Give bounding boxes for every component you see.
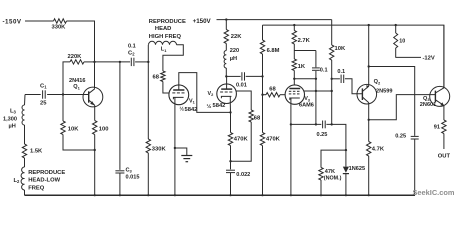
wire Q3 collector up: [443, 25, 445, 88]
resistor R 1.5K: [22, 144, 43, 158]
wire Q3 emitter down: [443, 105, 445, 120]
wire 68 leads: [263, 94, 286, 96]
node junction Q2 collector rail tap: [368, 24, 370, 26]
node junction cathode/ground: [174, 147, 176, 149]
node junction Q2 emitter/Q3 base: [368, 119, 370, 121]
svg-text:0.022: 0.022: [236, 172, 250, 178]
wire Q2 0.1 branch: [332, 78, 340, 80]
wire L2 to ground rail corner: [24, 190, 26, 195]
node junction 2.7K tap: [293, 24, 295, 26]
wire to V3 grid branch: [262, 76, 264, 94]
svg-text:22K: 22K: [231, 34, 242, 40]
svg-text:68: 68: [254, 116, 261, 122]
capacitor C3 0.015: [115, 168, 139, 181]
svg-text:25: 25: [40, 101, 47, 107]
node +150V supply terminal: [193, 18, 212, 25]
svg-text:0.25: 0.25: [317, 132, 328, 138]
svg-text:1.5K: 1.5K: [30, 149, 43, 155]
node ground rail junction: [119, 194, 121, 196]
wire 0.1 bottom to plate line: [315, 71, 317, 79]
node junction V3 plate: [293, 78, 295, 80]
resistor R 470K (V3 grid): [260, 133, 280, 146]
wire ground rail: [25, 194, 416, 196]
svg-text:91: 91: [434, 125, 440, 131]
tube V3 6AM6: [285, 85, 314, 108]
wire 330K to corner: [67, 21, 95, 62]
svg-text:2N599: 2N599: [376, 89, 392, 95]
node junction screen drop/cathode line: [331, 123, 333, 125]
svg-text:C1: C1: [40, 84, 47, 90]
svg-text:68: 68: [153, 74, 160, 80]
node junction 10ohm rail tap: [395, 24, 397, 26]
wire cathode to ground symbol: [175, 148, 187, 156]
node ground rail junction: [368, 194, 370, 196]
svg-text:½: ½: [207, 103, 212, 110]
wire base line left: [25, 94, 41, 96]
svg-text:½: ½: [179, 105, 184, 112]
wire 220uH to plate node: [225, 68, 227, 76]
svg-text:100: 100: [99, 126, 109, 132]
resistor R 6.8M: [260, 40, 279, 54]
node ground rail junction: [174, 194, 176, 196]
resistor R 470K (cathode): [228, 133, 248, 146]
svg-text:V1: V1: [189, 99, 196, 105]
wire C1 to Q1 base: [47, 94, 89, 96]
wire V1 plate lead: [179, 73, 231, 113]
node ground rail junction: [345, 194, 347, 196]
node ground rail junction: [320, 194, 322, 196]
wire 4.7K top: [368, 120, 370, 142]
wire emitter line: [369, 67, 415, 136]
svg-text:L1: L1: [161, 47, 167, 53]
node junction coupling: [261, 75, 263, 77]
wire +150V rail: [217, 19, 332, 21]
svg-text:HIGH FREQ: HIGH FREQ: [149, 34, 182, 40]
wire 0.022 to ground rail: [230, 173, 232, 196]
svg-text:5842: 5842: [213, 103, 226, 109]
wire -12V stub: [395, 56, 421, 58]
svg-text:C2: C2: [128, 50, 135, 56]
svg-text:Q1: Q1: [73, 84, 80, 90]
wire V3 screen line: [304, 90, 332, 92]
svg-text:C3: C3: [126, 168, 133, 174]
svg-text:-150V: -150V: [3, 19, 22, 26]
svg-text:OUT: OUT: [438, 153, 451, 159]
resistor R 10: [394, 33, 406, 48]
wire 91 to OUT: [443, 134, 445, 150]
capacitor 0.25 (cathode): [317, 121, 328, 139]
svg-text:47K: 47K: [325, 169, 335, 175]
svg-text:470K: 470K: [266, 137, 281, 143]
svg-text:10: 10: [399, 38, 405, 44]
wire bias branch left: [321, 150, 346, 167]
svg-text:10K: 10K: [335, 46, 346, 52]
tube V2 half 5842: [207, 84, 237, 110]
node ground rail junction: [94, 194, 96, 196]
node watermark: [413, 188, 455, 197]
svg-text:Q2: Q2: [374, 79, 381, 85]
svg-text:HEAD: HEAD: [155, 26, 171, 32]
wire L3 to 1.5K: [24, 125, 26, 144]
wire diode top lead: [345, 150, 347, 167]
wire 10K top: [62, 95, 64, 122]
svg-text:10K: 10K: [68, 127, 79, 133]
resistor R 330K (grid leak): [146, 139, 166, 153]
wire node A to C2: [95, 61, 131, 63]
node -150V supply terminal: [3, 19, 22, 26]
capacitor C2 0.1: [128, 43, 136, 66]
svg-text:68: 68: [269, 86, 276, 92]
capacitor 0.1 (Q2 base): [337, 69, 345, 83]
wire 220K right to junction: [84, 61, 95, 63]
wire 68 down to bias node: [231, 122, 252, 161]
resistor R 47K NOM: [319, 168, 342, 182]
resistor R 330K (top): [52, 19, 67, 31]
wire 2.7K top lead: [293, 25, 295, 30]
node junction emitter resistors: [94, 149, 96, 151]
svg-text:-12V: -12V: [423, 56, 435, 62]
svg-text:HEAD-LOW: HEAD-LOW: [28, 178, 60, 184]
transistor Q3 2N601: [420, 86, 450, 108]
wire 22K to 220uH: [225, 44, 227, 51]
node junction 22K tap: [225, 18, 227, 20]
svg-text:0.1: 0.1: [337, 69, 345, 75]
node junction bypass/cathode: [315, 123, 317, 125]
wire plate node to 0.01: [226, 75, 240, 77]
node OUT terminal: [438, 153, 451, 159]
wire Q2 emitter down: [368, 103, 370, 120]
svg-text:0.1: 0.1: [128, 43, 136, 49]
resistor R 22K: [224, 30, 242, 44]
node ground rail junction: [229, 194, 231, 196]
wire V2 cathode to junction: [229, 103, 231, 112]
wire 6.8M top lead: [262, 25, 264, 40]
svg-text:220: 220: [230, 48, 239, 54]
node -12V supply terminal: [423, 56, 435, 62]
svg-text:5842: 5842: [185, 107, 198, 113]
wire cathode line right: [326, 124, 346, 150]
transistor Q1 2N416: [69, 78, 103, 107]
ground symbol: [181, 156, 192, 162]
wire base corner down to L3: [24, 95, 27, 106]
node junction 0.1/plate line: [315, 78, 317, 80]
node junction V3 cathode: [290, 123, 292, 125]
wire 1.5K to L2: [24, 158, 26, 167]
svg-text:µH: µH: [230, 56, 237, 62]
svg-text:+150V: +150V: [193, 18, 212, 25]
resistor R 91: [434, 120, 446, 134]
wire 68 to V1 grid: [163, 82, 169, 94]
node junction L1/330K: [147, 61, 149, 63]
wire 1K top: [293, 51, 295, 60]
svg-text:0.25: 0.25: [395, 133, 406, 139]
wire plate node line: [294, 78, 316, 80]
node junction screen line: [315, 90, 317, 92]
resistor R 10K (Q1): [61, 121, 79, 135]
node junction V2 cathode: [229, 111, 231, 113]
svg-text:330K: 330K: [52, 24, 67, 30]
svg-text:220K: 220K: [68, 54, 83, 60]
resistor R 10K (screen): [330, 45, 346, 60]
node junction V2 plate: [225, 75, 227, 77]
svg-text:L3: L3: [10, 109, 17, 115]
wire 10ohm top: [395, 25, 397, 33]
wire 0.01 to 6.8M line: [246, 75, 263, 77]
svg-text:4.7K: 4.7K: [372, 146, 385, 152]
node ground rail junction: [290, 194, 292, 196]
node junction emitter line: [368, 65, 370, 67]
svg-text:(NOM.): (NOM.): [324, 176, 342, 182]
inductor L2 reproduce head low freq: [14, 167, 66, 191]
wire junction down to ground rail: [94, 150, 96, 195]
node ground rail junction: [261, 194, 263, 196]
svg-text:REPRODUCE: REPRODUCE: [149, 19, 186, 25]
capacitor 0.1 (plate): [312, 68, 328, 74]
capacitor 0.022: [226, 170, 250, 178]
wire V3 plate lead: [293, 79, 295, 85]
resistor R 68 (V3 grid stopper): [266, 86, 280, 97]
svg-text:0.1: 0.1: [320, 68, 328, 74]
svg-text:0.01: 0.01: [236, 83, 247, 89]
resistor R 68 (V1 grid): [153, 71, 166, 82]
wire 6.8M to coupling node: [262, 54, 264, 76]
wire 0.25 to ground rail: [414, 139, 416, 195]
wire 10K bottom to junction: [63, 135, 95, 151]
node junction C3 tap: [119, 61, 121, 63]
wire 22K top lead: [225, 20, 227, 30]
resistor R 1K: [292, 59, 306, 71]
svg-text:1,300: 1,300: [3, 117, 17, 123]
wire V2 plate lead: [226, 76, 228, 89]
node junction 10K/0.1 branch: [331, 78, 333, 80]
wire 4.7K to ground rail: [368, 156, 370, 195]
wire 0.1 to Q2 base: [345, 79, 363, 94]
svg-text:470K: 470K: [234, 137, 249, 143]
node junction 330K/220K: [93, 61, 95, 63]
svg-text:Q3: Q3: [423, 96, 430, 102]
svg-text:2.7K: 2.7K: [298, 38, 311, 44]
svg-text:1N625: 1N625: [349, 166, 365, 172]
resistor R 2.7K: [292, 31, 311, 45]
wire C3 to ground rail: [119, 173, 121, 195]
wire Q2 collector up to rail: [368, 25, 370, 86]
diode 1N625: [343, 166, 365, 174]
svg-text:REPRODUCE: REPRODUCE: [28, 170, 65, 176]
wire 10K from +150 rail: [331, 20, 333, 45]
svg-text:SeekIC.com: SeekIC.com: [413, 188, 455, 197]
resistor R 100: [93, 121, 109, 135]
wire C3 drop: [119, 62, 121, 170]
wire junction to Q1 collector: [94, 62, 96, 89]
wire screen bypass drop: [315, 79, 317, 125]
node junction screen/10K: [331, 90, 333, 92]
capacitor C1 25: [40, 84, 47, 107]
wire 1K to plate node: [293, 71, 295, 79]
resistor R 220K: [68, 54, 85, 64]
wire Q3 base step: [369, 95, 436, 120]
svg-text:FREQ: FREQ: [28, 185, 45, 191]
node ground rail junction: [147, 194, 149, 196]
inductor L3 1300uH: [3, 105, 25, 130]
wire -150V rail: [25, 20, 54, 22]
wire L1 left lead: [147, 45, 149, 62]
wire node to 0.022: [230, 161, 232, 169]
svg-text:6AM6: 6AM6: [299, 102, 314, 108]
node junction bias: [229, 160, 231, 162]
wire L1 right lead jog: [163, 45, 183, 71]
wire -12V sub rail: [263, 25, 444, 88]
wire V2 grid right: [236, 91, 251, 110]
wire 470K top: [230, 112, 232, 132]
wire 470K to node: [230, 146, 232, 162]
wire 100 to bottom junction: [94, 135, 96, 151]
wire 220K left corner down to base line: [63, 62, 70, 95]
wire 47K to ground rail: [320, 180, 322, 195]
node junction V3 grid branch: [261, 94, 263, 96]
resistor R 4.7K: [367, 142, 385, 157]
capacitor 0.01: [236, 72, 247, 88]
wire cathode line: [291, 123, 321, 125]
wire V3 cathode down: [290, 104, 292, 195]
tube V1 half 5842: [169, 85, 198, 113]
svg-text:1K: 1K: [298, 64, 306, 70]
svg-text:330K: 330K: [152, 146, 167, 152]
wire 330K to ground rail: [147, 153, 149, 195]
wire C2 to node B: [135, 61, 148, 63]
node junction base/10K: [62, 93, 64, 95]
wire plate top line: [294, 50, 316, 52]
svg-text:2N601: 2N601: [420, 102, 436, 108]
svg-text:6.8M: 6.8M: [267, 48, 280, 54]
wire 470K to ground rail: [262, 146, 264, 196]
wire 2.7K to corner: [293, 44, 295, 51]
wire 10ohm to -12V stub: [395, 48, 397, 57]
svg-text:L2: L2: [14, 178, 21, 184]
svg-text:0.015: 0.015: [126, 175, 140, 181]
svg-text:µH: µH: [9, 124, 16, 130]
wire down to 470K: [262, 95, 264, 133]
wire 0.1 top lead: [315, 51, 317, 68]
wire 10K to branch node: [331, 60, 333, 79]
resistor R 68 (V2 grid): [249, 110, 261, 122]
svg-text:V2: V2: [208, 91, 214, 97]
capacitor 0.25 (emitter): [395, 133, 419, 139]
wire Q1 emitter down: [94, 105, 96, 120]
inductor L 220uH: [224, 48, 240, 68]
wire V1 cathode down: [174, 105, 176, 196]
wire 330K vertical top: [147, 62, 149, 139]
inductor L1 reproduce head high freq: [149, 19, 186, 53]
wire diode to ground rail: [345, 174, 347, 196]
node junction diode top: [345, 149, 347, 151]
wire 10K continue to cathode line: [331, 79, 333, 125]
transistor Q2 2N599: [357, 79, 392, 104]
